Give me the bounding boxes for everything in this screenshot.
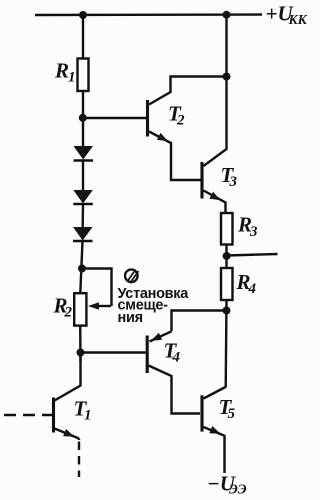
transistor T3 base bar	[200, 162, 203, 199]
svg-text:4: 4	[248, 281, 257, 297]
label R3	[237, 213, 258, 241]
wire: R1 bottom to diode chain	[82, 91, 84, 146]
transistor T2 emitter with arrow, to T3 base	[149, 132, 201, 181]
resistor R1	[78, 59, 89, 92]
transistor T4 emitter with arrow into bar (pnp)	[150, 331, 172, 341]
resistor R4	[221, 268, 233, 300]
diode D2	[73, 190, 93, 204]
label T2	[168, 102, 185, 129]
wire: output lead to the right	[227, 254, 278, 256]
label T4	[164, 339, 181, 366]
label +Ukk supply	[266, 2, 308, 28]
label R4	[236, 270, 257, 297]
diode D1	[74, 146, 94, 161]
wire: R2 bottom to T4 base node	[79, 326, 82, 362]
svg-text:5: 5	[228, 406, 236, 422]
svg-text:КК: КК	[288, 12, 308, 27]
svg-text:ЭЭ: ЭЭ	[229, 482, 247, 497]
node: output node between R3 and R4	[223, 252, 231, 260]
svg-text:4: 4	[172, 350, 181, 366]
wire: T2 collector	[149, 77, 227, 105]
svg-text:R: R	[54, 59, 69, 83]
transistor T5 emitter with arrow	[204, 427, 225, 473]
wire: D1 to D2	[82, 161, 84, 191]
wire: T1 dashed emitter lead	[78, 439, 80, 441]
adjuster symbol (circle with screwdriver slot)	[125, 270, 139, 284]
node: R1/T2-base junction	[79, 114, 87, 122]
wire: T4 base wire	[81, 351, 146, 353]
label -Uee supply	[207, 472, 247, 497]
wire: R3 to R4	[225, 245, 227, 269]
wire: T5 collector	[204, 387, 226, 399]
node: R2 / T1-collector / T4-base junction	[77, 349, 85, 357]
wire: wiper lead with arrow into R2	[97, 305, 111, 307]
svg-text:1: 1	[84, 408, 92, 424]
node: rail/right-branch junction	[223, 11, 231, 19]
wire: T4 emitter lead from node	[172, 311, 227, 332]
svg-text:3: 3	[249, 224, 258, 240]
svg-text:3: 3	[229, 174, 238, 190]
transistor T5 base bar	[200, 395, 203, 431]
wire: D3 to R2 top	[80, 241, 82, 293]
node: rail/R1 junction	[79, 11, 87, 19]
node: R4 / T4-emitter / T5-collector junction	[223, 307, 231, 315]
transistor T1 emitter with arrow	[55, 429, 80, 439]
wire: T4 collector down to T5 base	[149, 366, 201, 414]
label T5	[219, 395, 236, 422]
label R2	[53, 294, 73, 321]
wire: T2 base wire	[83, 117, 146, 119]
wire: T1 dashed base lead	[4, 414, 52, 416]
wire: rail to R1 top	[82, 15, 84, 59]
transistor T4 base bar	[146, 336, 149, 374]
wire: right branch from rail to T3 collector	[204, 15, 227, 166]
label R1	[54, 59, 76, 86]
wire: R4 bottom through T5 collector node	[224, 300, 227, 388]
svg-text:2: 2	[176, 113, 185, 129]
wire: T1 collector riser	[55, 353, 81, 401]
svg-text:1: 1	[68, 70, 76, 86]
node: T2 collector / right branch junction	[223, 73, 231, 81]
transistor T2 base bar	[146, 100, 149, 137]
label T1	[74, 397, 92, 424]
diode D3	[73, 227, 93, 241]
transistor T1 base bar	[52, 398, 55, 433]
wire: top +Ukk supply rail	[35, 13, 262, 16]
resistor R3	[221, 213, 233, 245]
label T3	[221, 163, 238, 190]
resistor R2 (bias potentiometer)	[74, 293, 86, 325]
transistor T3 emitter with arrow	[204, 191, 226, 214]
wire: wiper loop right and down	[82, 269, 112, 307]
svg-text:ния: ния	[118, 310, 143, 326]
wire: D2 to D3	[81, 204, 84, 227]
svg-text:2: 2	[64, 305, 73, 321]
node: diode chain / R2 wiper junction	[78, 265, 86, 273]
